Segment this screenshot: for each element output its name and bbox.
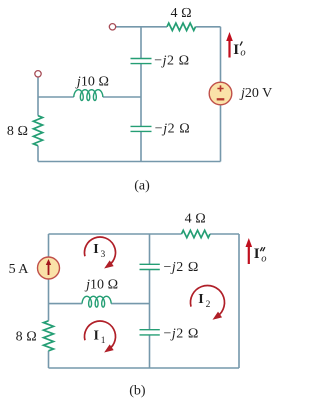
svg-text:5 A: 5 A (9, 262, 30, 277)
current source 5A (b): circle body (38, 257, 60, 279)
resistor 4-ohm (a), horizontal zigzag on top rail (167, 23, 195, 30)
svg-text:j10 Ω: j10 Ω (75, 74, 109, 89)
svg-text:8 Ω: 8 Ω (7, 124, 28, 139)
capacitor C2 -j2-ohm (a): bottom plate (131, 130, 152, 132)
svg-text:o: o (240, 48, 245, 59)
wire: (a) middle column middle rail to capacitor C2 top plate (140, 97, 142, 126)
svg-text:2: 2 (206, 300, 211, 310)
capacitor C4 -j2-ohm (b): top plate (140, 329, 160, 331)
svg-text:4 Ω: 4 Ω (185, 211, 206, 226)
wire: (b) middle column C3 bottom plate to capacitor C4 top plate (149, 270, 151, 330)
svg-text:−j2 Ω: −j2 Ω (164, 326, 200, 341)
capacitor C2 -j2-ohm (a): top plate (131, 125, 152, 127)
wire: (b) left column, 8-ohm resistor to bottom rail (48, 351, 50, 368)
voltage source (a): minus sign (217, 98, 225, 100)
wire: (a) top rail from terminal to 4-ohm resistor (116, 26, 167, 28)
resistor 8-ohm (a), vertical zigzag on left column (33, 116, 42, 146)
wire: (a) middle column C1 bottom plate to middle rail junction (140, 64, 142, 97)
capacitor C1 -j2-ohm (a): top plate (131, 58, 152, 60)
capacitor C1 -j2-ohm (a): bottom plate (131, 63, 152, 65)
voltage source j20V (a): circle body (209, 82, 232, 105)
svg-text:8 Ω: 8 Ω (16, 330, 37, 345)
node: open terminal, left of circuit (a) (35, 71, 41, 77)
wire: (a) bottom rail (38, 161, 221, 163)
capacitor C3 -j2-ohm (b): bottom plate (140, 269, 160, 271)
svg-text:(a): (a) (134, 178, 150, 193)
svg-text:I: I (93, 242, 98, 257)
inductor j10-ohm (b), coil on middle rail (82, 296, 111, 307)
svg-text:−j2 Ω: −j2 Ω (164, 260, 200, 275)
svg-text:I: I (94, 328, 99, 343)
wire: (b) left column, top corner to current source top (48, 234, 50, 257)
wire: (b) middle rail from inductor to middle column (111, 303, 149, 305)
capacitor C4 -j2-ohm (b): bottom plate (140, 334, 160, 336)
wire: (a) right column, voltage source bottom to bottom rail (220, 105, 222, 162)
svg-text:1: 1 (101, 336, 106, 346)
inductor j10-ohm (a), coil on middle rail (74, 90, 103, 101)
svg-text:−j2 Ω: −j2 Ω (154, 54, 190, 69)
svg-text:j10 Ω: j10 Ω (84, 278, 118, 293)
svg-text:−j2 Ω: −j2 Ω (155, 122, 191, 137)
wire: (a) middle column top rail to capacitor C1 top plate (140, 27, 142, 59)
wire: (b) top rail right of resistor to right corner (210, 233, 239, 235)
wire: (b) middle rail from left column to inductor (49, 303, 83, 305)
svg-text:I: I (233, 42, 239, 58)
arrow I"o (b), red upward current arrow (248, 246, 250, 265)
mesh current arrow I3 loop (b) (85, 237, 116, 265)
wire: (a) top rail right of resistor into right corner (196, 26, 221, 28)
wire: (a) middle rail from inductor to middle column (103, 96, 141, 98)
wire: (b) middle column top rail to capacitor C3 top plate (149, 234, 151, 264)
wire: (b) middle column C4 bottom plate to bottom rail (149, 335, 151, 368)
svg-text:I: I (198, 292, 203, 307)
mesh current arrow I1 loop (b) (85, 321, 116, 349)
node: open terminal, top of circuit (a) (109, 24, 115, 30)
resistor 4-ohm (b), horizontal zigzag on top rail (182, 230, 210, 237)
svg-text:o: o (261, 253, 266, 264)
resistor 8-ohm (b), vertical zigzag on left column (44, 321, 54, 351)
wire: (a) left column from terminal down to 8-ohm resistor (37, 77, 39, 116)
wire: (a) right column, corner down to voltage source top (220, 27, 222, 82)
svg-text:j20 V: j20 V (239, 86, 272, 101)
svg-text:(b): (b) (129, 383, 146, 398)
wire: (a) middle column C2 bottom plate to bottom rail (140, 131, 142, 161)
capacitor C3 -j2-ohm (b): top plate (140, 263, 160, 265)
wire: (b) top rail from left column to 4-ohm resistor (49, 233, 182, 235)
wire: (a) middle rail from left column to inductor (38, 96, 74, 98)
arrow I'o (a), red upward current arrow (228, 40, 230, 58)
svg-text:4 Ω: 4 Ω (170, 6, 191, 21)
wire: (b) left column, current source bottom to 8-ohm resistor (48, 279, 50, 321)
svg-text:I: I (254, 246, 260, 262)
wire: (b) bottom rail (49, 367, 240, 369)
current source (b): internal upward arrow (46, 259, 51, 275)
voltage source (a): plus sign (217, 85, 223, 91)
wire: (b) right column (238, 234, 240, 368)
wire: (a) left column from 8-ohm resistor to bottom rail (37, 146, 39, 162)
mesh current arrow I2 loop (b) (190, 286, 224, 317)
svg-text:3: 3 (101, 250, 106, 260)
